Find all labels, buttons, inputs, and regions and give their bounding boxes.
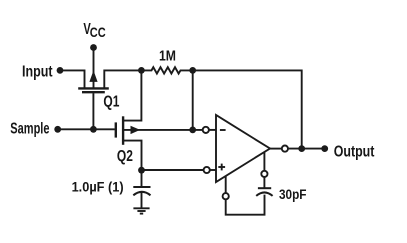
capacitor C1 curved plate xyxy=(133,192,150,196)
svg-text:1.0µF (1): 1.0µF (1) xyxy=(72,180,124,196)
wire feedback node B to output xyxy=(193,70,302,148)
pin comp 1 circle xyxy=(223,193,229,199)
capacitor C1 top plate xyxy=(133,186,150,188)
resistor R1 1M xyxy=(141,67,192,73)
wire Q1 drain to node A xyxy=(104,70,141,88)
pin output circle xyxy=(282,146,288,152)
wire Q2 source to hold node xyxy=(123,141,141,170)
wire Q2 body to inverting input xyxy=(123,129,203,131)
pin noninverting input circle xyxy=(204,167,210,173)
svg-text:Sample: Sample xyxy=(10,120,49,137)
wire inverting pin to op-amp xyxy=(209,129,216,131)
ground xyxy=(133,208,149,213)
node Sample terminal dot xyxy=(54,126,61,133)
wire hold node to noninverting pin xyxy=(142,169,204,171)
wire op-amp output to output pin xyxy=(270,148,282,150)
node B junction dot xyxy=(189,67,196,74)
wire hold node to capacitor C1 xyxy=(141,170,143,187)
wire capacitor C2 top to comp pin 2 xyxy=(263,177,265,188)
transistor Q2 body arrow xyxy=(131,126,141,134)
transistor Q2 channel bar xyxy=(122,116,124,145)
op-amp minus sign xyxy=(220,129,226,131)
transistor Q1 body arrow xyxy=(89,70,97,82)
svg-text:30pF: 30pF xyxy=(279,187,307,202)
node Input terminal dot xyxy=(57,67,64,74)
svg-text:Q1: Q1 xyxy=(103,94,119,111)
wire Sample to Q2 gate xyxy=(58,128,115,130)
wire comp pin 2 to op-amp xyxy=(263,152,265,171)
wire op-amp comp pin 1 xyxy=(225,176,227,193)
wire noninverting pin to op-amp xyxy=(210,169,216,171)
op-amp plus sign xyxy=(218,164,225,171)
wire output pin to Output terminal xyxy=(288,148,325,150)
node VCC terminal dot xyxy=(90,44,97,51)
wire Q2 drain to node A xyxy=(123,70,141,120)
wire comp pin 1 to capacitor C2 bottom xyxy=(226,195,265,215)
node hold junction dot xyxy=(138,167,145,174)
svg-text:CC: CC xyxy=(90,24,106,40)
op-amp U1 xyxy=(216,115,270,182)
pin comp 2 circle xyxy=(261,171,267,177)
wire Input to Q1 source xyxy=(60,70,85,88)
node Output terminal dot xyxy=(321,145,328,152)
wire VCC to Q1 body xyxy=(93,48,95,89)
pin inverting input circle xyxy=(203,127,209,133)
svg-text:Output: Output xyxy=(334,144,375,161)
node Sample junction dot xyxy=(90,126,97,133)
node feedback junction dot xyxy=(298,145,305,152)
svg-text:Input: Input xyxy=(22,64,53,81)
node inverting junction dot xyxy=(189,126,196,133)
label VCC xyxy=(83,21,105,40)
wire node B to inverting line xyxy=(192,70,194,129)
transistor Q1 gate bar xyxy=(82,91,105,93)
svg-text:Q2: Q2 xyxy=(117,148,133,165)
node A junction dot xyxy=(138,67,145,74)
transistor Q1 channel bar xyxy=(78,87,109,89)
transistor Q2 gate bar xyxy=(115,122,117,137)
capacitor C2 curved plate xyxy=(256,192,272,196)
svg-text:1M: 1M xyxy=(159,49,176,65)
wire Q1 gate lead xyxy=(92,93,94,129)
wire capacitor C1 to ground xyxy=(141,192,143,208)
capacitor C2 top plate xyxy=(258,187,271,189)
